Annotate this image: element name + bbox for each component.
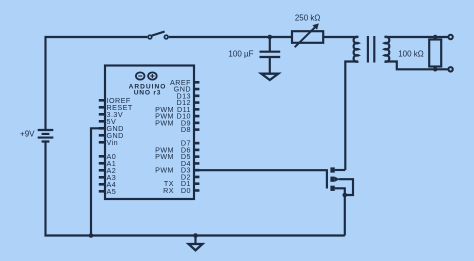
svg-text:100 µF: 100 µF [228,50,253,59]
svg-text:Vin: Vin [107,138,119,147]
svg-text:+9V: +9V [20,130,35,139]
svg-text:PWM: PWM [155,166,174,175]
svg-text:PWM: PWM [155,118,174,127]
svg-text:D0: D0 [181,186,191,195]
svg-text:A5: A5 [107,187,117,196]
svg-text:RX: RX [163,186,174,195]
svg-text:250 kΩ: 250 kΩ [295,14,321,23]
svg-text:D8: D8 [181,125,191,134]
svg-text:UNO r3: UNO r3 [134,89,162,96]
svg-text:100 kΩ: 100 kΩ [398,50,424,59]
svg-text:PWM: PWM [155,152,174,161]
